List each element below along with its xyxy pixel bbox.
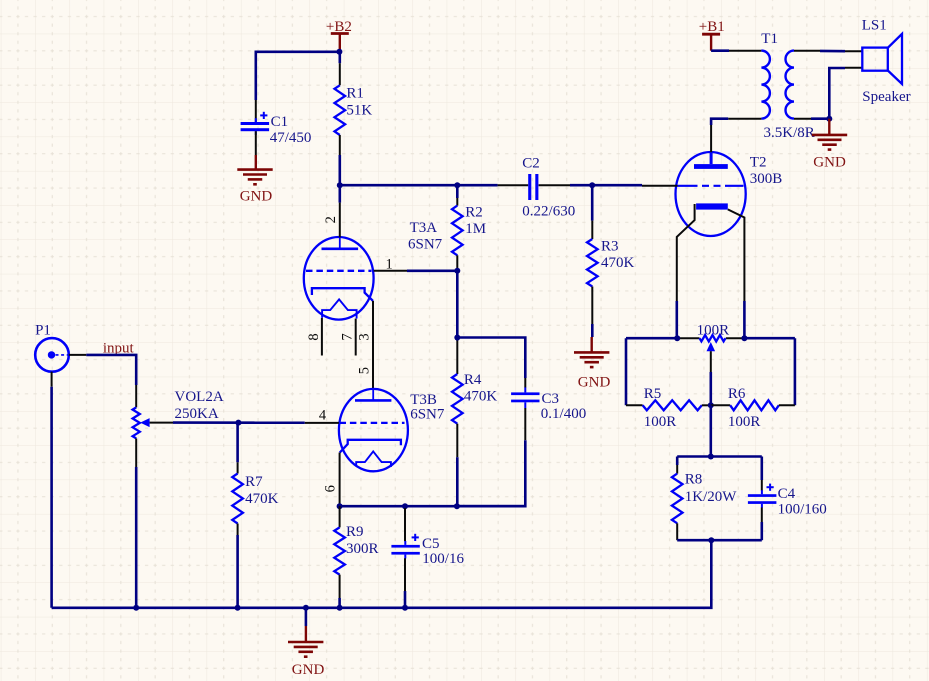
node junction rail GND	[303, 605, 309, 611]
resistor R9 pin bottom	[339, 575, 341, 598]
resistor R4	[452, 374, 463, 424]
capacitor C4	[748, 494, 777, 497]
transformer T1 secondary winding	[786, 51, 795, 119]
connector P1 pin bottom	[51, 372, 53, 387]
transformer T1 primary winding	[761, 51, 770, 119]
svg-text:1K/20W: 1K/20W	[685, 489, 738, 505]
tube T3A pin 7	[355, 319, 357, 356]
resistor R3 pin bottom	[591, 287, 593, 325]
node junction T3B cathode	[337, 503, 343, 509]
resistor R5 pin right	[702, 404, 711, 406]
svg-text:51K: 51K	[346, 102, 372, 118]
svg-text:T3A: T3A	[410, 220, 438, 236]
svg-text:C3: C3	[542, 391, 560, 407]
svg-text:250KA: 250KA	[175, 406, 219, 422]
node junction at R3 top	[589, 182, 595, 188]
tube T3A cathode	[312, 288, 373, 301]
node junction right leg	[741, 335, 747, 341]
svg-text:3: 3	[357, 333, 373, 340]
svg-text:470K: 470K	[601, 255, 635, 271]
wire R1 bottom to T3A plate node	[338, 155, 341, 203]
capacitor C4 pin bottom	[761, 508, 763, 523]
svg-text:100/16: 100/16	[422, 551, 464, 567]
wire T1 secondary to LS1	[820, 50, 845, 53]
ground GND at rail	[305, 608, 308, 626]
tube T2 filament left leg	[677, 204, 695, 301]
wire T2 right leg to hum pot	[743, 301, 746, 338]
svg-text:R6: R6	[728, 386, 746, 402]
wire R5R6 node to R8 C4 box	[709, 405, 712, 456]
node junction R7 top	[235, 420, 241, 426]
svg-text:100/160: 100/160	[778, 501, 827, 517]
svg-text:47/450: 47/450	[270, 130, 312, 146]
capacitor C2 pin right	[539, 184, 570, 186]
tube T3B grid	[340, 422, 405, 424]
svg-text:R1: R1	[346, 85, 364, 101]
node junction R8 C4 top	[708, 454, 714, 460]
wire to C3 top	[457, 338, 525, 379]
tube T3B 6SN7 envelope	[339, 389, 408, 471]
svg-text:+B1: +B1	[699, 19, 725, 35]
node junction T3A grid / R2 bottom	[454, 268, 460, 274]
svg-text:6: 6	[322, 485, 338, 492]
resistor R7 pin bottom	[237, 524, 239, 536]
node junction R5 R6 wiper	[708, 402, 714, 408]
tube T3B pin 4 lead	[305, 422, 339, 424]
svg-text:R4: R4	[464, 372, 482, 388]
resistor R4 pin bottom	[456, 424, 458, 458]
wire P1 to VOL2A	[86, 355, 136, 385]
svg-text:T1: T1	[761, 31, 778, 47]
capacitor C1 pin bottom	[255, 131, 257, 155]
capacitor C1 pin top	[255, 100, 257, 122]
svg-text:0.22/630: 0.22/630	[522, 204, 575, 220]
svg-text:100R: 100R	[728, 414, 761, 430]
svg-text:2: 2	[323, 216, 339, 223]
wire T2 left leg to hum pot	[675, 301, 678, 338]
svg-text:4: 4	[319, 407, 327, 423]
tube T3A pin 2	[339, 203, 341, 238]
capacitor C2	[528, 174, 531, 200]
wire R7 bottom to ground rail	[236, 535, 239, 608]
svg-text:C4: C4	[778, 486, 796, 502]
wire R8 C4 bottom bus	[677, 539, 762, 542]
svg-text:7: 7	[340, 333, 356, 340]
transformer T1 secondary pin top	[794, 50, 820, 52]
speaker LS1 pin top	[845, 50, 862, 52]
node junction rail R7	[235, 605, 241, 611]
resistor R3	[587, 239, 598, 287]
node junction rail VOL2A	[133, 605, 139, 611]
node junction R8 C4 bottom	[708, 537, 714, 543]
wire P1 bottom to ground rail	[50, 387, 53, 608]
svg-text:VOL2A: VOL2A	[175, 389, 224, 405]
svg-text:C2: C2	[522, 155, 540, 171]
svg-text:100R: 100R	[644, 414, 677, 430]
svg-text:R7: R7	[245, 474, 263, 490]
transformer T1 primary pin top	[729, 50, 761, 52]
wire R9 bottom to rail	[338, 598, 341, 608]
tube T3B pin 6	[339, 453, 341, 507]
resistor R6	[730, 400, 779, 410]
tube T3A 6SN7 envelope	[304, 237, 374, 320]
node junction left leg	[674, 335, 680, 341]
wire hum pot row	[626, 337, 678, 340]
svg-text:R5: R5	[644, 386, 662, 402]
node junction T3A plate	[337, 182, 343, 188]
resistor R8	[672, 474, 683, 524]
resistor R7	[232, 474, 243, 524]
wire pot row left corner	[625, 338, 628, 405]
svg-text:C5: C5	[422, 536, 440, 552]
tube T3B filament	[356, 451, 391, 467]
node junction T1 secondary / GND	[826, 116, 832, 122]
svg-text:6SN7: 6SN7	[408, 237, 443, 253]
svg-text:300R: 300R	[346, 541, 379, 557]
wire pot row right corner	[794, 338, 797, 405]
tube T3A pin 1 lead	[374, 270, 407, 272]
wire top horizontal bus to C2	[340, 184, 498, 187]
ground GND at T1 secondary	[828, 119, 830, 135]
resistor R6 pin right	[779, 404, 795, 406]
svg-text:8: 8	[306, 333, 322, 340]
svg-text:5: 5	[357, 367, 373, 374]
tube T2 filament right leg	[728, 209, 745, 301]
wire from +B2 node to C1	[256, 52, 340, 100]
wire cathode node bus	[340, 505, 526, 508]
svg-text:1: 1	[386, 256, 393, 272]
ground GND at R3	[591, 337, 593, 352]
capacitor C3 pin bottom	[524, 408, 526, 440]
svg-text:GND: GND	[578, 374, 611, 390]
wire R8 C4 top bus	[677, 455, 762, 458]
node junction rail R9	[337, 605, 343, 611]
capacitor C4 pin top	[760, 457, 763, 481]
svg-text:3.5K/8R: 3.5K/8R	[764, 125, 815, 141]
node junction rail C5	[402, 605, 408, 611]
potentiometer VOL2A	[133, 407, 140, 438]
node junction R4 top	[454, 335, 460, 341]
svg-text:R3: R3	[601, 239, 619, 255]
svg-text:T2: T2	[750, 154, 767, 170]
transformer T1 secondary pin bottom	[794, 118, 811, 120]
capacitor C2 pin left	[498, 184, 529, 186]
svg-text:T3B: T3B	[410, 392, 437, 408]
resistor R5 pin left	[626, 404, 643, 406]
svg-text:R8: R8	[685, 472, 703, 488]
svg-text:R9: R9	[346, 524, 364, 540]
resistor R2 pin top	[456, 185, 459, 198]
tube T3B plate	[372, 389, 374, 401]
wire ground rail	[52, 540, 712, 608]
svg-text:470K: 470K	[245, 491, 279, 507]
connector P1 pin right	[69, 354, 87, 356]
tube T2 plate	[710, 152, 713, 164]
ground GND at C1	[255, 155, 257, 170]
resistor R8 pin bottom	[676, 523, 678, 540]
resistor R1	[335, 85, 346, 135]
svg-text:0.1/400: 0.1/400	[541, 406, 586, 422]
resistor R3 pin top	[591, 185, 594, 220]
wire R4 bottom to cathode node	[456, 457, 459, 506]
capacitor C3	[511, 392, 539, 395]
node junction C5 top	[402, 503, 408, 509]
resistor R9 pin top	[339, 506, 341, 527]
capacitor C1	[241, 122, 270, 125]
wire +B1 to T1 primary	[711, 49, 729, 52]
wire T3A pin1 to R2 bottom	[407, 269, 457, 272]
potentiometer VOL2A wiper lead	[150, 422, 173, 424]
tube T2 grid pin	[642, 185, 678, 187]
resistor R4 pin top	[456, 341, 458, 375]
speaker LS1 pin bottom	[845, 67, 862, 69]
wire C2 to R3/T2 grid node	[570, 184, 642, 187]
tube T3A pin 8	[321, 318, 323, 356]
node junction R4 bottom	[454, 503, 460, 509]
tube T2 300B envelope	[676, 152, 746, 236]
svg-text:GND: GND	[292, 662, 325, 678]
svg-text:GND: GND	[240, 188, 273, 204]
wire T1 primary to T2 plate	[711, 119, 728, 125]
resistor R9	[334, 527, 345, 574]
svg-text:470K: 470K	[464, 389, 498, 405]
wire C3 bottom to cathode node	[457, 440, 525, 506]
svg-text:R2: R2	[465, 204, 483, 220]
wire R2 bottom node down to R4 node	[456, 271, 459, 341]
svg-text:Speaker: Speaker	[862, 89, 910, 105]
resistor R2	[452, 206, 463, 256]
svg-text:C1: C1	[271, 114, 289, 130]
tube T3A filament	[322, 299, 357, 318]
transformer T1 primary pin bottom	[728, 118, 761, 120]
resistor R2 pin bottom	[456, 255, 458, 270]
resistor R7 pin top	[236, 423, 239, 463]
wire GND node up to LS1 bottom	[829, 68, 845, 119]
capacitor C5 pin top	[404, 508, 406, 541]
svg-text:GND: GND	[813, 154, 846, 170]
wire C5 bottom to rail	[404, 591, 407, 608]
node junction at R1 top	[336, 49, 342, 55]
resistor R6 pin left	[711, 404, 730, 406]
resistor R5	[643, 400, 702, 410]
svg-text:P1: P1	[35, 322, 51, 338]
potentiometer VOL2A pin bottom	[135, 438, 137, 467]
svg-text:100R: 100R	[697, 322, 730, 338]
wire T1 secondary bottom to GND node	[811, 117, 829, 120]
tube T2 filament	[696, 203, 728, 209]
tube T2 grid	[678, 185, 744, 187]
tube T3A pin 3 to T3B pin 5 link	[372, 301, 374, 389]
resistor R1 pin top	[338, 52, 341, 63]
svg-text:6SN7: 6SN7	[410, 407, 445, 423]
capacitor C5 pin bottom	[404, 558, 406, 591]
wire VOL2A wiper to T3B grid	[173, 421, 305, 424]
node junction at R2 top	[454, 182, 460, 188]
capacitor C5	[391, 545, 419, 548]
tube T3B cathode	[340, 440, 401, 453]
svg-text:1M: 1M	[465, 221, 486, 237]
resistor R8 pin top	[676, 457, 679, 466]
potentiometer 100R wiper lead	[710, 351, 712, 372]
speaker LS1	[862, 48, 888, 71]
tube T2 plate pin	[710, 125, 712, 152]
potentiometer VOL2A pin top	[135, 385, 137, 407]
wire 100R wiper to R5 R6 node	[709, 372, 712, 405]
tube T3A plate	[339, 237, 341, 248]
resistor R1 pin bottom	[339, 135, 341, 155]
svg-text:LS1: LS1	[862, 18, 887, 34]
svg-text:300B: 300B	[750, 171, 783, 187]
capacitor C3 pin top	[524, 378, 526, 388]
wire VOL2A bottom to ground rail	[135, 467, 138, 608]
potentiometer 100R	[700, 335, 726, 341]
tube T3A grid	[306, 270, 372, 272]
connector P1	[35, 338, 69, 372]
